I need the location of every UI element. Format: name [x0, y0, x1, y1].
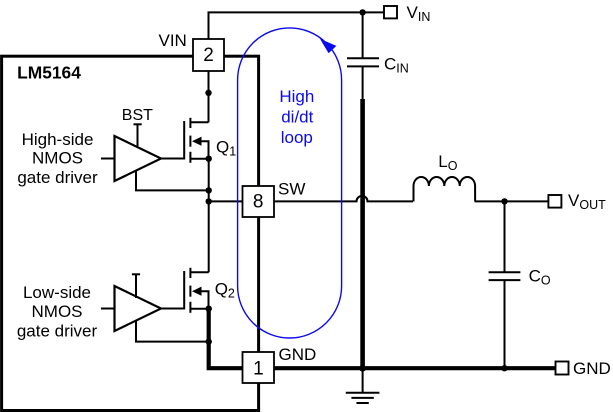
svg-text:loop: loop [281, 128, 313, 147]
svg-text:gate driver: gate driver [17, 168, 98, 187]
svg-text:di/dt: di/dt [281, 108, 313, 127]
svg-text:gate driver: gate driver [17, 321, 98, 340]
svg-text:Low-side: Low-side [23, 283, 91, 302]
svg-text:GND: GND [573, 359, 611, 378]
svg-text:LM5164: LM5164 [17, 63, 81, 83]
svg-text:2: 2 [203, 45, 214, 66]
svg-text:BST: BST [122, 107, 153, 124]
svg-text:VIN: VIN [159, 31, 187, 50]
svg-text:1: 1 [253, 359, 264, 380]
svg-text:High: High [279, 87, 314, 106]
svg-text:NMOS: NMOS [32, 149, 83, 168]
svg-text:NMOS: NMOS [32, 302, 83, 321]
svg-text:SW: SW [278, 180, 305, 199]
svg-text:High-side: High-side [22, 130, 94, 149]
svg-text:GND: GND [279, 345, 317, 364]
svg-text:8: 8 [253, 191, 264, 212]
